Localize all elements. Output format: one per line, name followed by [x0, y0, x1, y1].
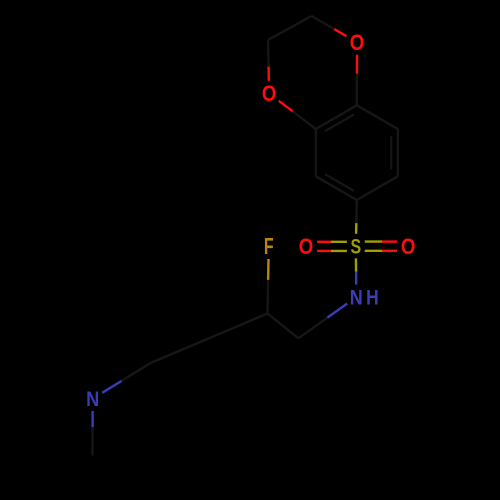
benzene edge C1-C2: [316, 105, 357, 129]
bond CHF-CH2 (long chain bond): [151, 314, 268, 364]
bond O2-C2 (to aromatic ring): [279, 101, 293, 111]
svg-text:O: O: [262, 81, 277, 106]
bond CH2-N(methyl): [122, 363, 151, 381]
benzene edge C6-C1: [357, 105, 398, 129]
svg-text:F: F: [264, 234, 274, 259]
S=O left double bond: [317, 241, 331, 243]
bond CH2-CHF: [268, 314, 299, 339]
benzene edge C2-C3: [315, 129, 317, 176]
S=O right double bond: [365, 240, 382, 242]
bond CH2b-O2: [267, 40, 270, 67]
benzene edge C4-C5: [357, 176, 398, 200]
benzene edge C5-C6: [397, 129, 399, 176]
bond N-CH2: [327, 304, 347, 318]
svg-text:H: H: [366, 286, 379, 310]
bond C4-S: [355, 200, 358, 223]
bond CH2a-CH2b: [268, 16, 312, 40]
bond O1-CH2a (methylenedioxy bridge): [334, 29, 346, 36]
svg-text:S: S: [350, 235, 361, 259]
bond S-N(H): [355, 258, 358, 271]
bond C-F: [266, 280, 269, 314]
double-bond inner line C3=C4: [325, 174, 354, 191]
double-bond inner line C1=C2: [325, 114, 354, 131]
svg-text:O: O: [350, 30, 365, 55]
svg-text:O: O: [401, 234, 416, 259]
svg-text:O: O: [299, 235, 314, 260]
bond N-CH3: [91, 411, 93, 427]
double-bond inner line C5=C6: [390, 136, 392, 169]
benzene edge C3-C4: [316, 176, 357, 200]
bond O1-C1 (to aromatic ring): [356, 55, 359, 74]
svg-text:N: N: [350, 286, 363, 310]
svg-text:N: N: [86, 388, 99, 412]
